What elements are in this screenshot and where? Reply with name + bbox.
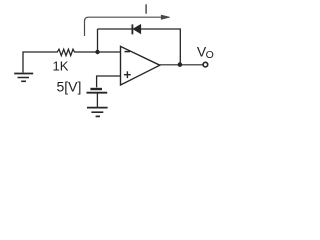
battery V1 5V — [87, 89, 108, 93]
diode D1 — [132, 24, 140, 34]
node (output junction) — [178, 62, 183, 67]
svg-text:5[V]: 5[V] — [57, 79, 82, 95]
current arrow I — [85, 15, 170, 36]
wire — [98, 28, 132, 30]
op-amp U1 — [121, 46, 160, 85]
wire — [76, 51, 121, 53]
terminal Vo — [203, 62, 208, 67]
label I — [145, 4, 146, 13]
resistor 1K — [56, 49, 76, 55]
svg-text:1K: 1K — [53, 59, 69, 74]
ground — [14, 74, 33, 82]
wire — [23, 52, 56, 73]
wire — [97, 29, 99, 52]
wire — [97, 76, 121, 87]
wire — [160, 64, 203, 66]
wire — [96, 93, 98, 107]
wire — [141, 29, 181, 65]
ground — [87, 108, 108, 117]
node (inverting input junction) — [95, 50, 99, 54]
